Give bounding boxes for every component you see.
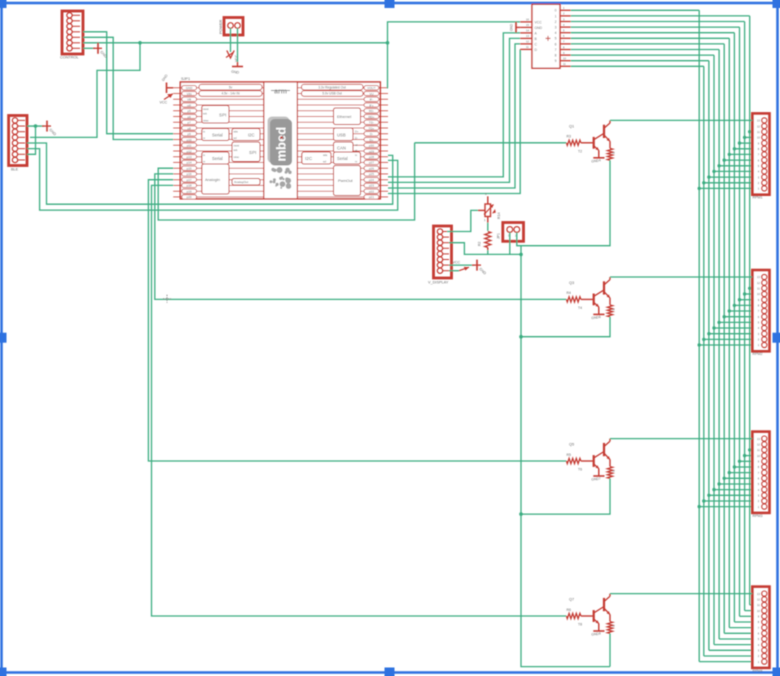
svg-text:T2: T2 [578, 149, 582, 153]
mbed logo block [268, 117, 290, 164]
mbed interface box PwmOut [334, 166, 361, 196]
svg-text:GND: GND [186, 86, 194, 90]
svg-text:I2C: I2C [305, 156, 313, 161]
ground GND3 [42, 125, 51, 127]
wire BLE gnd to pin7 [27, 126, 36, 154]
svg-text:GND: GND [510, 23, 514, 31]
connector BLE (8x1 header) [9, 116, 27, 166]
svg-text:p24: p24 [369, 178, 374, 182]
connector JP1 (2 pin) [503, 223, 524, 242]
taps into RPM1 [699, 187, 752, 189]
svg-text:8: 8 [555, 54, 557, 58]
wire resistor to transistor T4 base [581, 298, 594, 300]
svg-text:p14: p14 [187, 161, 192, 165]
svg-text:p23: p23 [369, 184, 374, 188]
svg-text:Q1: Q1 [569, 124, 574, 128]
svg-text:p30: p30 [369, 144, 374, 148]
svg-text:RPM1: RPM1 [753, 196, 763, 200]
svg-text:SJP1: SJP1 [181, 77, 190, 81]
wire VCC rail H1 [83, 42, 388, 44]
svg-text:p19: p19 [187, 190, 192, 194]
wire JP1 pin1 down [509, 232, 511, 254]
IC output pins [560, 9, 571, 11]
svg-text:2: 2 [555, 20, 557, 24]
resistor R4 gate series [566, 297, 581, 302]
svg-text:Serial: Serial [212, 156, 223, 161]
junction BLE gnd [34, 124, 38, 128]
svg-text:4: 4 [555, 31, 557, 35]
svg-text:6: 6 [555, 42, 557, 46]
junction on VCC rail [138, 41, 142, 45]
wire POWER pin2 to GND [237, 28, 239, 62]
svg-text:RPM2: RPM2 [753, 352, 763, 356]
mbed pin boxes [182, 86, 197, 90]
ground GND1 [93, 47, 102, 49]
mbed interface box I2C2 [302, 152, 331, 164]
mbed center logo panel [264, 82, 298, 199]
svg-text:AnalogOut: AnalogOut [234, 180, 248, 184]
connector CONTROL (6x1 header) [62, 11, 83, 54]
svg-text:miso: miso [234, 155, 240, 159]
wire resistor to transistor T2 base [581, 142, 594, 144]
wire POWER pin1 to supply arrow [230, 28, 232, 52]
svg-text:1: 1 [555, 14, 557, 18]
resistor R5 gate series [566, 458, 581, 463]
svg-text:AnalogIn: AnalogIn [205, 178, 220, 182]
mbed interface box USB [334, 128, 354, 141]
IC origin cross [546, 36, 551, 41]
ground GND7 [593, 475, 604, 477]
svg-text:5v: 5v [229, 85, 233, 89]
wire common rail [521, 246, 610, 667]
wire mbed p15 to gate feed [158, 143, 414, 220]
wire BLE pin5 under mbed to mbed p13 [27, 143, 393, 204]
svg-text:VIN: VIN [187, 92, 192, 96]
svg-text:IF+: IF+ [369, 103, 374, 107]
resistor sense R2 vertical [607, 467, 612, 479]
wire CONTROL pin5 to mbed p10 [83, 37, 173, 139]
mbed interface box Serial3 [334, 152, 361, 164]
supply arrow VCC3 [459, 267, 469, 271]
svg-text:T4: T4 [578, 306, 582, 310]
resistor R3 gate series [566, 140, 581, 145]
svg-text:scl: scl [234, 136, 238, 140]
mbed interface box SPI1 [202, 106, 229, 124]
svg-text:mbed: mbed [274, 127, 289, 162]
taps into RPM2 [699, 344, 752, 346]
svg-text:4.5v - 14v IN: 4.5v - 14v IN [221, 92, 240, 96]
wire mbed p23 to IC input B [388, 38, 520, 182]
transistor T4 darlington [593, 294, 595, 306]
resistor sense R0 vertical [607, 148, 612, 160]
svg-text:p20: p20 [187, 195, 192, 199]
svg-text:V_DISPLAY: V_DISPLAY [428, 281, 449, 285]
wire drain to RPM1 pin1 [610, 119, 752, 121]
svg-text:p17: p17 [187, 178, 192, 182]
svg-text:TD+: TD+ [369, 126, 375, 130]
mbed interface box Serial1 [202, 129, 229, 141]
transistor T8 darlington [593, 610, 595, 622]
wire JP1 pin2 to rail [517, 232, 521, 245]
connector POWER (2x1) [224, 18, 243, 36]
svg-text:R5: R5 [567, 453, 571, 457]
taps into RPM3 [699, 506, 752, 508]
wire drain to RPM2 pin1 [610, 276, 752, 278]
svg-text:VCC: VCC [160, 101, 168, 105]
svg-text:p22: p22 [369, 190, 374, 194]
mbed interior pin rails [173, 87, 264, 89]
svg-text:I2C: I2C [248, 133, 255, 138]
svg-text:9: 9 [555, 59, 557, 63]
svg-text:p10: p10 [187, 138, 192, 142]
mbed interface box SPI2 [232, 142, 260, 162]
svg-text:sda: sda [234, 130, 239, 134]
ground GND4 [593, 157, 604, 159]
ground GND6 [593, 313, 604, 315]
wire V_DISPLAY pin1 to trimmer [447, 210, 478, 231]
svg-text:D-: D- [370, 132, 373, 136]
svg-text:BLE: BLE [11, 168, 19, 172]
net label cross on gate2 [163, 295, 171, 303]
wire resistor to transistor T6 base [581, 460, 594, 462]
wire mbed p21 to IC input D [388, 49, 520, 193]
svg-text:JP1: JP1 [497, 233, 501, 239]
resistor R6 gate series [566, 613, 581, 618]
bus wires from IC outputs to right side [571, 9, 699, 11]
ground GND8 [593, 630, 604, 632]
svg-text:VB: VB [187, 98, 191, 102]
svg-text:GND: GND [535, 26, 543, 30]
svg-text:p12: p12 [187, 149, 192, 153]
svg-text:p28: p28 [369, 155, 374, 159]
svg-text:p26: p26 [369, 167, 374, 171]
svg-text:IF-: IF- [370, 98, 374, 102]
svg-text:T6: T6 [578, 468, 582, 472]
svg-text:p27: p27 [369, 161, 374, 165]
svg-text:arm: arm [274, 89, 287, 96]
connector RPM3 (13x1 header) [752, 432, 769, 513]
mbed interface box Serial2 [202, 152, 229, 164]
svg-text:p18: p18 [187, 184, 192, 188]
transistor T2 darlington [593, 137, 595, 149]
wire R2 to rail junction [487, 248, 489, 251]
supply arrow VCC at mbed VIN pin [164, 94, 173, 100]
connector RPM2 (13x1 header) [752, 270, 769, 351]
wire V_DISPLAY pin7 to GND [449, 264, 474, 266]
svg-text:D+: D+ [355, 130, 359, 134]
resistor R2 [485, 232, 491, 248]
svg-text:Ethernet: Ethernet [337, 115, 352, 119]
wire mbed p24 to IC input A [388, 33, 520, 177]
svg-text:CONTROL: CONTROL [60, 56, 79, 60]
wire sense resistor to rail [521, 160, 610, 246]
junction VCC rail at IC feed [386, 41, 390, 45]
svg-text:p6: p6 [187, 115, 191, 119]
wire sense resistor to rail [609, 633, 611, 666]
svg-text:3.3v Regulated Out: 3.3v Regulated Out [318, 85, 346, 89]
wire sense resistor to rail [521, 317, 610, 337]
wire mbed p22 to IC input C [388, 44, 520, 188]
connector V_DISPLAY (8x1 header) [434, 226, 452, 278]
transistor T6 darlington [593, 455, 595, 467]
svg-text:Serial: Serial [337, 156, 348, 161]
svg-text:Serial: Serial [212, 133, 223, 138]
svg-text:p29: p29 [369, 149, 374, 153]
wire CONTROL pin4 to mbed p9 [83, 32, 173, 134]
svg-text:D+: D+ [369, 138, 373, 142]
svg-text:RPM3: RPM3 [753, 514, 763, 518]
svg-text:mosi: mosi [203, 107, 209, 111]
svg-text:VCC: VCC [453, 261, 461, 265]
svg-text:p15: p15 [187, 167, 192, 171]
svg-text:D-: D- [355, 136, 358, 140]
svg-text:R4: R4 [567, 291, 571, 295]
mbed power boxes [199, 84, 262, 90]
svg-text:VOUT: VOUT [367, 86, 376, 90]
wire mbed p17 to gate3 [148, 180, 566, 461]
svg-text:RPM4: RPM4 [753, 669, 763, 673]
wire BLE pin2 to GND [27, 125, 44, 127]
junction at rail top [519, 253, 523, 257]
svg-text:5.0v USB Out: 5.0v USB Out [322, 92, 342, 96]
mbed interface box AnalogOut [232, 179, 260, 186]
svg-text:p13: p13 [187, 155, 192, 159]
svg-text:Q3: Q3 [569, 281, 574, 285]
mbed interface box I2C1 [232, 129, 260, 141]
connector RPM4 (13x1 header) [752, 587, 769, 668]
svg-text:T8: T8 [578, 623, 582, 627]
connector RPM1 (13x1 header) [752, 113, 769, 194]
wire drain to RPM4 pin1 [610, 593, 752, 595]
svg-text:3: 3 [555, 26, 557, 30]
wire trimmer to resistor R2 [487, 217, 489, 223]
svg-text:RD-: RD- [369, 109, 374, 113]
svg-text:R14: R14 [497, 212, 501, 219]
supply arrow VCC2 [227, 51, 234, 59]
mbed splat graphic [273, 169, 277, 173]
svg-text:USB: USB [337, 133, 346, 138]
svg-text:POWER: POWER [219, 19, 223, 34]
resistor sense R1 vertical [607, 305, 612, 317]
ground GND2 [237, 62, 239, 66]
svg-text:Q7: Q7 [569, 598, 574, 602]
trimmer R14 [485, 204, 491, 217]
svg-text:SPI: SPI [219, 113, 226, 118]
module U1 mbed LPC1768 [180, 82, 380, 199]
svg-text:scl: scl [323, 160, 327, 164]
selection handles [0, 0, 7, 8]
wire V_DISPLAY pin3 to JP1 [449, 243, 521, 255]
wire IC VCC from mbed VOUT [388, 22, 521, 88]
mbed interface box AnalogIn [202, 164, 229, 194]
resistor sense R3 vertical [607, 622, 612, 634]
svg-text:PwmOut: PwmOut [338, 179, 354, 183]
junction rail taps [519, 335, 523, 339]
svg-text:VU: VU [369, 92, 373, 96]
taps into RPM4 [699, 661, 752, 663]
svg-text:RD+: RD+ [368, 115, 374, 119]
svg-text:CAN: CAN [337, 146, 346, 151]
mbed interface box CAN [334, 142, 354, 153]
wire resistor to transistor T8 base [581, 615, 594, 617]
svg-text:0: 0 [555, 9, 557, 13]
IC U2 4017 decade counter [532, 4, 560, 68]
svg-text:R6: R6 [567, 608, 571, 612]
svg-text:sda: sda [323, 153, 328, 157]
svg-text:SPI: SPI [249, 150, 256, 155]
wire drain to RPM3 pin1 [610, 438, 752, 440]
wire VCC rail to BLE [30, 43, 140, 138]
svg-text:p16: p16 [187, 172, 192, 176]
svg-text:5: 5 [555, 37, 557, 41]
svg-text:p5: p5 [187, 109, 191, 113]
svg-text:p25: p25 [369, 172, 374, 176]
wire CONTROL pin7 to GND [83, 47, 95, 49]
svg-text:R2: R2 [478, 242, 482, 246]
svg-text:miso: miso [203, 119, 209, 123]
svg-text:p21: p21 [369, 195, 374, 199]
bus verticals [698, 10, 700, 661]
svg-text:mosi: mosi [234, 144, 240, 148]
svg-text:TD-: TD- [369, 121, 374, 125]
svg-text:p7: p7 [187, 121, 191, 125]
wire sense resistor to rail [521, 478, 610, 514]
svg-text:R3: R3 [567, 135, 571, 139]
mbed interface box Ethernet [334, 108, 361, 125]
svg-text:7: 7 [555, 48, 557, 52]
ground at mbed GND pin [167, 87, 173, 89]
wire BLE pin6 under mbed to mbed p14 [27, 149, 398, 210]
svg-text:Q5: Q5 [569, 443, 574, 447]
svg-text:p9: p9 [187, 132, 191, 136]
IC GND symbol [517, 26, 521, 28]
ground GND5 [472, 264, 481, 266]
svg-text:VCC: VCC [535, 20, 543, 24]
svg-text:p8: p8 [187, 126, 191, 130]
wire V_DISPLAY pin8 to VCC arrow [449, 270, 459, 272]
svg-text:p11: p11 [187, 144, 192, 148]
wire mbed p18 to gate4 [152, 185, 567, 616]
wire gate1 horizontal [415, 142, 567, 144]
wire mbed p16 to gate2 [155, 174, 567, 300]
